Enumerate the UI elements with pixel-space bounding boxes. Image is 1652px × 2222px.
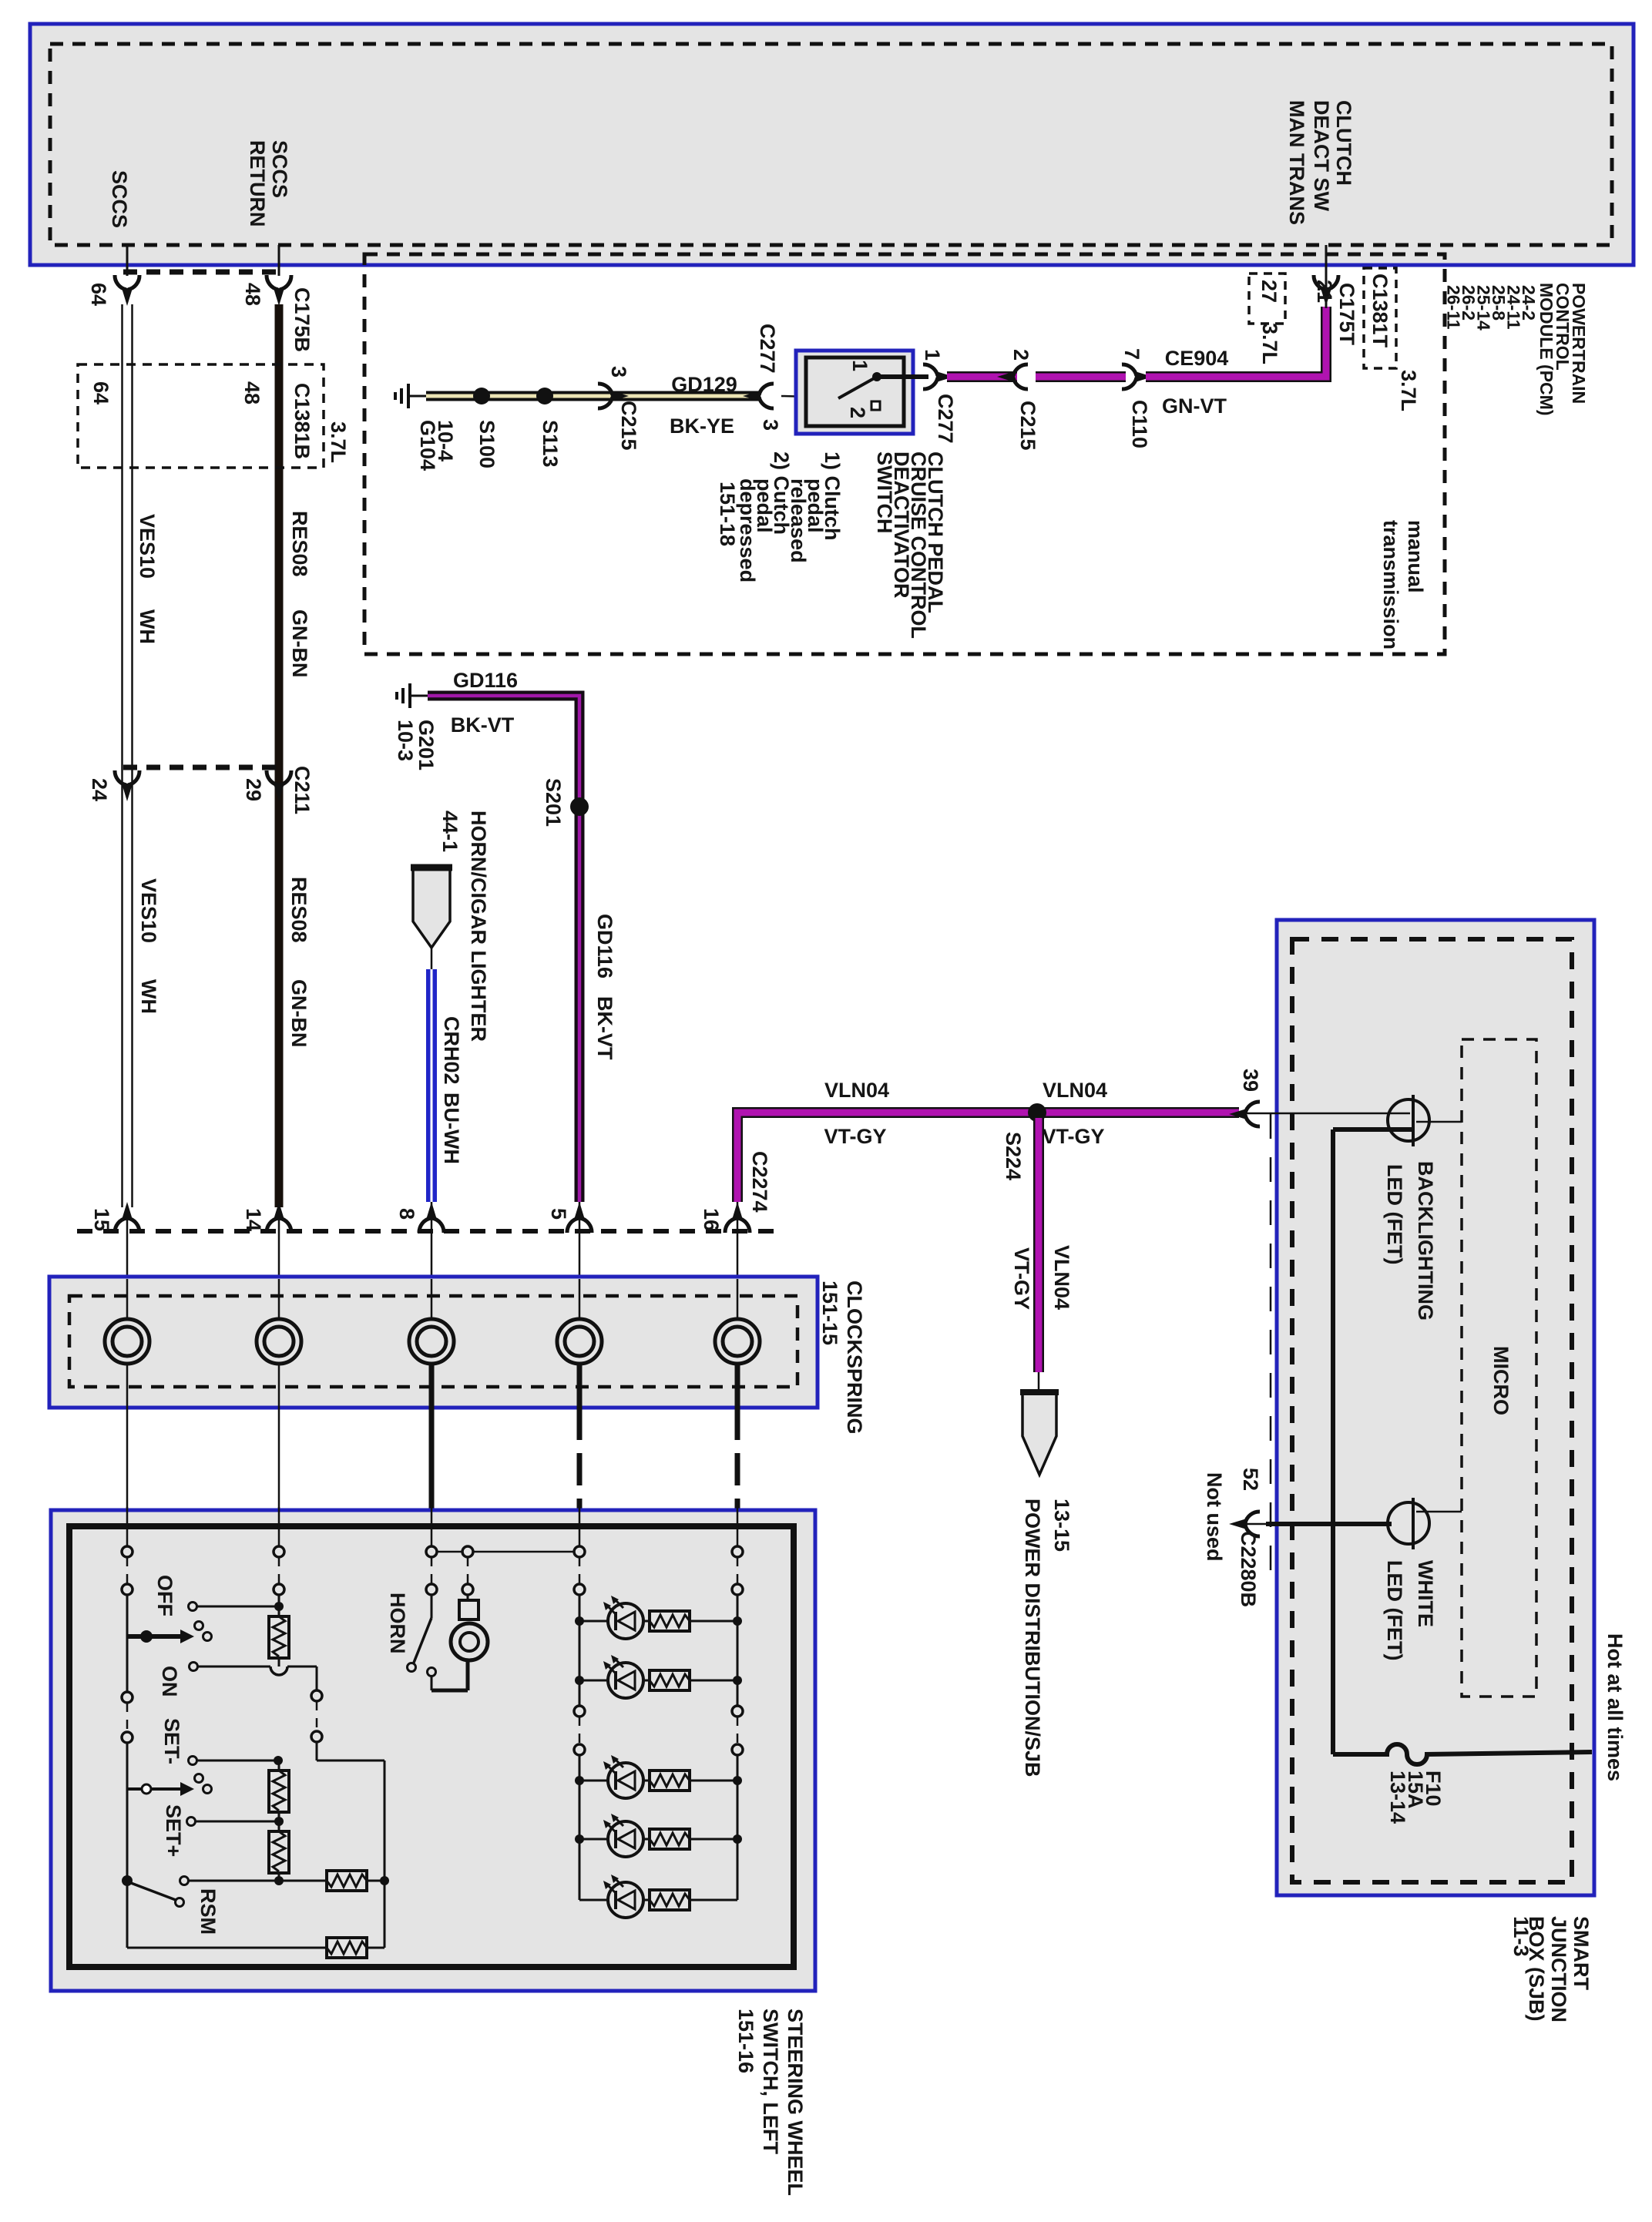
connector C277 on BK-YE bbox=[743, 384, 774, 408]
coil 5 bbox=[715, 1319, 760, 1364]
svg-text:transmission: transmission bbox=[1379, 520, 1402, 649]
backlighting LED FET bbox=[1388, 1099, 1429, 1141]
wire stub pin 48 bbox=[278, 245, 280, 276]
svg-text:27: 27 bbox=[1257, 280, 1281, 303]
svg-text:SWITCH, LEFT: SWITCH, LEFT bbox=[759, 2009, 782, 2154]
connector C110 bbox=[1122, 364, 1153, 389]
resistor R3 bbox=[269, 1831, 289, 1873]
svg-text:64: 64 bbox=[87, 283, 110, 306]
terminals column horn bbox=[462, 1546, 473, 1557]
svg-text:C175T: C175T bbox=[1335, 283, 1358, 346]
wire GD129 BK-YE bbox=[426, 391, 761, 401]
wire stub pin 64 bbox=[126, 245, 129, 276]
OFF contact bbox=[153, 1575, 176, 1616]
svg-text:VLN04: VLN04 bbox=[1050, 1245, 1073, 1310]
svg-text:SMART: SMART bbox=[1570, 1916, 1593, 1990]
splice S113 bbox=[536, 388, 553, 404]
svg-text:2: 2 bbox=[1009, 349, 1032, 361]
ON contact bbox=[158, 1666, 181, 1697]
svg-text:S201: S201 bbox=[542, 778, 565, 827]
svg-text:LED (FET): LED (FET) bbox=[1383, 1164, 1406, 1264]
wires below coils bbox=[429, 1364, 435, 1510]
off-page arrow horn/cigar lighter 44-1 bbox=[413, 869, 450, 948]
SET-/SET+ lever bbox=[127, 1787, 183, 1791]
svg-text:CLOCKSPRING: CLOCKSPRING bbox=[843, 1281, 866, 1435]
svg-text:MICRO: MICRO bbox=[1489, 1346, 1513, 1415]
svg-text:VLN04: VLN04 bbox=[824, 1079, 889, 1102]
connector C2274 pin 16 label bbox=[748, 1151, 771, 1213]
svg-text:GN-VT: GN-VT bbox=[1162, 394, 1227, 418]
svg-text:10-3: 10-3 bbox=[394, 720, 417, 761]
svg-text:VLN04: VLN04 bbox=[1043, 1079, 1107, 1102]
wire VES10 WH (white, double line) bbox=[121, 304, 123, 1207]
svg-text:GD116: GD116 bbox=[453, 669, 518, 692]
connector symbols pointing up bbox=[115, 1202, 139, 1233]
svg-text:1: 1 bbox=[921, 349, 944, 361]
svg-text:151-15: 151-15 bbox=[818, 1281, 841, 1345]
svg-text:3: 3 bbox=[607, 366, 630, 378]
svg-text:GD116: GD116 bbox=[593, 914, 616, 978]
svg-text:2: 2 bbox=[846, 407, 869, 418]
LED row 1 bbox=[579, 1620, 608, 1623]
coil 3 bbox=[409, 1319, 454, 1364]
left bus bbox=[579, 1595, 581, 1706]
thin wire into switch bbox=[781, 396, 840, 398]
svg-text:21: 21 bbox=[1313, 280, 1336, 303]
svg-text:10-4: 10-4 bbox=[434, 420, 457, 462]
svg-text:11-3: 11-3 bbox=[1509, 1916, 1533, 1957]
ground G104 bbox=[395, 384, 426, 408]
wire labels VES10 WH upper bbox=[136, 514, 159, 579]
svg-text:VES10: VES10 bbox=[137, 878, 160, 943]
svg-text:Not used: Not used bbox=[1203, 1472, 1226, 1562]
svg-text:GD129: GD129 bbox=[671, 373, 737, 396]
svg-text:SET+: SET+ bbox=[162, 1804, 185, 1857]
dashed connector line bbox=[77, 1229, 774, 1234]
svg-text:WHITE: WHITE bbox=[1414, 1560, 1437, 1627]
svg-text:C277: C277 bbox=[756, 324, 779, 374]
svg-text:VT-GY: VT-GY bbox=[824, 1125, 886, 1148]
svg-text:C277: C277 bbox=[934, 394, 957, 444]
svg-text:CE904: CE904 bbox=[1165, 347, 1229, 370]
wire CRH02 BU-WH (blue) bbox=[426, 969, 437, 1202]
svg-text:BK-VT: BK-VT bbox=[593, 996, 616, 1060]
svg-text:13-15: 13-15 bbox=[1050, 1499, 1073, 1552]
coil 2 bbox=[257, 1319, 301, 1364]
pin 52 arrow and wire bbox=[1229, 1512, 1260, 1536]
terminals column 1 (cruise) bbox=[126, 1507, 129, 1546]
svg-text:HORN: HORN bbox=[386, 1593, 409, 1654]
svg-text:OFF: OFF bbox=[153, 1575, 176, 1616]
svg-text:5: 5 bbox=[547, 1208, 570, 1220]
svg-text:S100: S100 bbox=[475, 420, 499, 468]
svg-text:SET-: SET- bbox=[160, 1718, 183, 1764]
main wire to bottom rail bbox=[126, 1881, 129, 1948]
svg-text:3.7L: 3.7L bbox=[1258, 323, 1281, 364]
svg-text:7: 7 bbox=[1120, 348, 1143, 360]
svg-text:SCCS: SCCS bbox=[108, 170, 131, 228]
splice S224 bbox=[1028, 1103, 1046, 1122]
svg-text:WH: WH bbox=[136, 609, 159, 644]
resistor R4 bbox=[327, 1871, 367, 1891]
svg-text:8: 8 bbox=[395, 1208, 418, 1220]
svg-text:C1381T: C1381T bbox=[1368, 274, 1392, 348]
svg-text:C2280B: C2280B bbox=[1237, 1531, 1260, 1607]
svg-text:151-18: 151-18 bbox=[716, 482, 739, 546]
svg-text:LED (FET): LED (FET) bbox=[1383, 1560, 1406, 1660]
LED row 5 bbox=[579, 1899, 608, 1901]
clutch pedal cruise control deactivator switch box bbox=[796, 351, 913, 434]
svg-text:52: 52 bbox=[1239, 1468, 1262, 1491]
svg-text:G201: G201 bbox=[415, 720, 438, 770]
wire RES08 GN-BN (thick) bbox=[275, 304, 284, 1207]
wire CE904 GN-VT bbox=[947, 371, 1017, 382]
C1381B dashed box 3.7L bbox=[78, 364, 324, 468]
steering wheel switch left box bbox=[51, 1510, 815, 1991]
svg-text:48: 48 bbox=[241, 283, 264, 306]
svg-text:RETURN: RETURN bbox=[246, 140, 269, 227]
svg-text:3.7L: 3.7L bbox=[1397, 370, 1420, 411]
27 dashed box + 3.7L bbox=[1249, 274, 1285, 324]
LED row 2 bbox=[579, 1680, 608, 1682]
connector C175T bbox=[1314, 275, 1338, 306]
svg-text:VT-GY: VT-GY bbox=[1010, 1247, 1033, 1310]
C1381T dashed box + 3.7L bbox=[1364, 268, 1396, 368]
connector C215 on BK-YE bbox=[598, 384, 629, 408]
connector C175B dashed line bbox=[123, 270, 282, 275]
svg-text:S224: S224 bbox=[1002, 1132, 1025, 1180]
horn body bbox=[467, 1595, 469, 1600]
off-page arrow power distribution/SJB bbox=[1022, 1394, 1056, 1475]
svg-text:WH: WH bbox=[137, 979, 160, 1014]
OFF/ON lever bbox=[127, 1634, 183, 1639]
svg-text:CRH02: CRH02 bbox=[440, 1016, 463, 1085]
coil 1 bbox=[105, 1319, 149, 1364]
connector C215 on CE904 bbox=[997, 364, 1028, 389]
connector symbol pin 48 bbox=[267, 275, 291, 306]
wires through clockspring bbox=[126, 1279, 129, 1408]
svg-text:RSM: RSM bbox=[196, 1888, 220, 1935]
svg-text:ON: ON bbox=[158, 1666, 181, 1697]
svg-text:24: 24 bbox=[88, 778, 111, 801]
svg-text:1: 1 bbox=[848, 360, 871, 371]
svg-text:BU-WH: BU-WH bbox=[440, 1093, 463, 1164]
svg-text:C211: C211 bbox=[290, 766, 314, 814]
manual transmission region bbox=[364, 254, 1445, 654]
pin label SCCS RETURN bbox=[268, 140, 291, 198]
connector C277 pin 1 bbox=[923, 364, 954, 389]
switch lever bbox=[838, 377, 877, 398]
svg-text:48: 48 bbox=[240, 381, 264, 404]
wire VLN04 VT-GY horizontal bbox=[737, 1113, 1239, 1202]
label POWERTRAIN CONTROL MODULE (PCM) bbox=[1569, 283, 1589, 404]
SET+ contact bbox=[162, 1804, 185, 1857]
svg-text:C1381B: C1381B bbox=[290, 383, 314, 459]
right bus bbox=[737, 1595, 739, 1706]
svg-text:13-14: 13-14 bbox=[1386, 1771, 1409, 1824]
svg-text:C110: C110 bbox=[1128, 400, 1151, 448]
thin wire stubs through connector bbox=[126, 1207, 129, 1279]
SET- contact bbox=[160, 1718, 183, 1764]
svg-text:3.7L: 3.7L bbox=[327, 421, 350, 463]
pin1 wire bbox=[878, 374, 928, 379]
terminals column 2 (resistors) bbox=[278, 1507, 280, 1546]
hot at all times bbox=[1603, 1633, 1627, 1781]
svg-text:BK-VT: BK-VT bbox=[451, 713, 515, 737]
svg-text:POWER DISTRIBUTION/SJB: POWER DISTRIBUTION/SJB bbox=[1021, 1499, 1044, 1777]
svg-text:SWITCH: SWITCH bbox=[873, 451, 896, 533]
wire VLN04 vertical to power distribution bbox=[1033, 1118, 1044, 1372]
splice S201 bbox=[570, 797, 589, 816]
powertrain control module PCM box bbox=[30, 24, 1634, 265]
wire labels RES08 GN-BN lower bbox=[287, 877, 311, 943]
svg-text:C215: C215 bbox=[617, 401, 640, 451]
link to internal column bbox=[287, 1666, 317, 1668]
svg-text:MAN TRANS: MAN TRANS bbox=[1285, 100, 1308, 225]
pin 39 arrow and wire bbox=[1229, 1102, 1260, 1126]
SJB internal bus bbox=[1331, 1129, 1335, 1754]
LED row 3 bbox=[579, 1780, 608, 1782]
resistor R5 bbox=[327, 1938, 367, 1958]
svg-text:RES08: RES08 bbox=[287, 877, 311, 943]
svg-text:3: 3 bbox=[759, 419, 782, 431]
svg-text:C175B: C175B bbox=[290, 287, 314, 352]
clockspring box bbox=[49, 1277, 818, 1408]
LED row 4 bbox=[579, 1838, 608, 1841]
svg-text:39: 39 bbox=[1239, 1069, 1262, 1092]
svg-text:14: 14 bbox=[242, 1208, 265, 1231]
svg-text:29: 29 bbox=[242, 778, 265, 801]
svg-text:64: 64 bbox=[89, 381, 112, 404]
terminals column horn switch bbox=[431, 1507, 433, 1546]
svg-text:DEACT SW: DEACT SW bbox=[1310, 100, 1333, 212]
svg-text:RES08: RES08 bbox=[288, 511, 311, 577]
svg-text:manual: manual bbox=[1404, 520, 1427, 593]
ground G201 bbox=[397, 683, 428, 708]
terminals column LED left bus bbox=[579, 1507, 581, 1546]
smart junction box bbox=[1277, 920, 1594, 1895]
svg-text:BK-YE: BK-YE bbox=[670, 415, 734, 438]
svg-text:GN-BN: GN-BN bbox=[288, 609, 311, 678]
svg-text:15: 15 bbox=[90, 1208, 113, 1231]
svg-text:S113: S113 bbox=[539, 420, 562, 468]
connector symbol pin 64 bbox=[115, 275, 139, 306]
wire labels VES10 WH lower bbox=[137, 878, 160, 943]
bypass arc bbox=[270, 1666, 287, 1675]
pin label CLUTCH DEACT SW MAN TRANS bbox=[1332, 100, 1355, 186]
switch description labels bbox=[924, 451, 947, 613]
svg-text:VT-GY: VT-GY bbox=[1042, 1125, 1104, 1148]
svg-text:C215: C215 bbox=[1016, 401, 1039, 451]
CE904 wire to corner and up to C175T bbox=[1146, 307, 1326, 377]
terminals column LED right bus bbox=[737, 1507, 739, 1546]
svg-text:BACKLIGHTING: BACKLIGHTING bbox=[1414, 1161, 1437, 1321]
white LED FET bbox=[1388, 1502, 1429, 1544]
svg-text:SCCS: SCCS bbox=[268, 140, 291, 198]
micro dashed box bbox=[1462, 1039, 1536, 1697]
svg-text:VES10: VES10 bbox=[136, 514, 159, 579]
connector C211 bbox=[123, 765, 282, 770]
RSM switch bbox=[122, 1875, 133, 1886]
splice S100 bbox=[475, 390, 488, 402]
svg-text:JUNCTION: JUNCTION bbox=[1547, 1916, 1570, 2022]
coil 4 bbox=[557, 1319, 602, 1364]
svg-text:Hot at all times: Hot at all times bbox=[1603, 1633, 1627, 1781]
svg-text:HORN/CIGAR LIGHTER: HORN/CIGAR LIGHTER bbox=[467, 811, 490, 1042]
wire labels RES08 GN-BN upper bbox=[288, 511, 311, 577]
svg-text:C2274: C2274 bbox=[748, 1151, 771, 1213]
svg-text:GN-BN: GN-BN bbox=[287, 979, 311, 1048]
horn feed line across top bbox=[437, 1551, 579, 1553]
svg-text:STEERING WHEEL: STEERING WHEEL bbox=[784, 2009, 807, 2196]
svg-text:151-16: 151-16 bbox=[734, 2009, 757, 2073]
PCM pin list bbox=[1519, 285, 1539, 321]
resistor R2 bbox=[278, 1760, 280, 1771]
resistor R1 bbox=[269, 1616, 289, 1658]
svg-text:16: 16 bbox=[700, 1208, 723, 1231]
svg-text:CLUTCH: CLUTCH bbox=[1332, 100, 1355, 186]
wire GD116 BK-VT bbox=[428, 696, 579, 1202]
fuse F10 15A bbox=[1333, 1744, 1592, 1764]
svg-text:44-1: 44-1 bbox=[438, 811, 462, 852]
